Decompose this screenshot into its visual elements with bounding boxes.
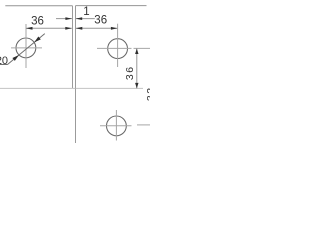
dimension 36 left: left arrow [26,27,33,30]
dimension 1: right segment with arrow [76,18,95,20]
hole circle top right [108,39,128,59]
dimension 36 left: line [26,27,72,29]
svg-text:20: 20 [0,55,8,67]
bottom hole horizontal centerline [100,125,132,127]
diameter 20 leader: horizontal tail [0,64,8,66]
left hole horizontal centerline [11,47,42,49]
dimension 1: left segment with arrow [56,18,72,20]
svg-text:1: 1 [83,6,89,18]
svg-text:36: 36 [31,16,44,28]
hole circle bottom [107,116,127,136]
dimension 36 vertical: top arrow [135,49,138,55]
cabinet top edge [76,5,147,7]
diameter 20 leader: diagonal through circle [8,34,45,65]
dimension 36 left: right arrow [65,27,72,30]
dimension 36 right: line [76,27,118,29]
cabinet front edge [75,6,77,89]
diameter 20 leader: lower-left arrow [12,55,19,61]
dimension 36 right: left arrow [76,27,83,30]
dimension 36 vertical: line [136,48,138,88]
lower cabinet edge line [75,88,77,143]
door top edge [5,5,72,7]
svg-text:36: 36 [124,65,136,80]
bottom hole vertical centerline [115,110,117,141]
left hole vertical centerline / extension [25,24,27,68]
svg-text:36: 36 [94,15,107,27]
right hole horizontal centerline [97,47,132,49]
dimension 36 vertical: bottom arrow [135,83,138,89]
right hole vertical centerline / extension [117,24,119,67]
door right edge [72,6,74,89]
dimension 36 right: right arrow [111,27,118,30]
right hole centerline extension [134,47,151,49]
bottom hole centerline dash right [137,124,150,126]
bottom section line [0,87,143,89]
svg-text:32: 32 [145,86,150,101]
diameter 20 leader: upper-right arrow [34,36,41,42]
hole circle left (cup) [16,38,36,58]
